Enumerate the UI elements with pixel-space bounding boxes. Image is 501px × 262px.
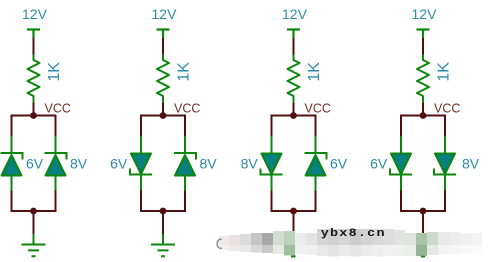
pin wire bottom of left diode [400,175,402,192]
svg-text:6V: 6V [330,156,348,172]
junction bottom node (circuit 1) [30,208,37,215]
resistor R1 [28,55,40,103]
svg-text:1K: 1K [306,62,323,82]
wire VCC node to right branch [294,116,316,137]
svg-text:8V: 8V [462,156,480,172]
blurred watermark logo curl [217,239,222,248]
pin wire top of right diode [315,136,317,153]
pin wire bottom of left diode [271,175,273,192]
svg-text:12V: 12V [282,6,308,22]
wire resistor R4 to node VCC [422,103,424,115]
wire left branch to bottom node [12,191,34,212]
wire right branch to bottom node [423,191,445,212]
power terminal +12V (circuit 3) [287,30,300,39]
svg-text:8V: 8V [200,156,218,172]
zener diode D2 (8V) anode triangle [46,155,66,176]
wire resistor R3 to node VCC [293,103,295,115]
zener diode D1 (6V) cathode bar [1,153,23,160]
zener diode D6 (6V) cathode bar [305,153,327,160]
pin wire bottom of right diode [444,175,446,192]
pin wire top of left diode [271,136,273,155]
wire VCC node to left branch [141,116,163,137]
junction node VCC (circuit 1) [30,112,37,119]
wire VCC node to left branch [272,116,294,137]
power terminal +12V (circuit 1) [27,30,40,39]
ground symbol (circuit 3, mostly hidden by watermark) [282,234,306,256]
zener diode D4 (8V) cathode bar [174,153,196,160]
svg-text:VCC: VCC [305,102,331,116]
wire left branch to bottom node [401,191,423,212]
svg-text:8V: 8V [70,156,88,172]
junction node VCC (circuit 3) [290,112,297,119]
zener diode D6 (6V) anode triangle [306,155,326,176]
pin wire top of left diode [11,136,13,153]
wire bottom node to ground [422,211,424,234]
svg-text:ybx8.cn: ybx8.cn [321,227,386,240]
zener diode D1 (6V) anode triangle [2,155,22,176]
wire VCC node to right branch [163,116,185,137]
wire left branch to bottom node [272,191,294,212]
pin wire top of right diode [184,136,186,153]
pin wire top of right diode [55,136,57,153]
resistor R4 [417,55,429,103]
wire VCC node to left branch [12,116,34,137]
junction bottom node (circuit 2) [160,208,167,215]
pin wire bottom of left diode [11,176,13,192]
wire 12V terminal to resistor R1 [33,38,35,55]
zener diode D7 (6V) cathode bar [390,169,412,175]
watermark blur mosaic band [218,229,482,257]
svg-text:VCC: VCC [174,102,200,116]
pin wire top of left diode [400,136,402,155]
wire 12V terminal to resistor R2 [162,38,164,55]
pin wire bottom of right diode [55,176,57,192]
zener diode D8 (8V) anode triangle [435,154,455,175]
wire resistor R2 to node VCC [162,103,164,115]
wire bottom node to ground [293,211,295,234]
wire VCC node to right branch [34,116,56,137]
zener diode D5 (8V) cathode bar [261,169,283,175]
zener diode D5 (8V) anode triangle [262,154,282,175]
junction bottom node (circuit 3) [290,208,297,215]
svg-text:6V: 6V [26,156,44,172]
ground symbol (circuit 1) [22,234,46,256]
wire right branch to bottom node [163,191,185,212]
wire 12V terminal to resistor R4 [422,38,424,55]
power terminal +12V (circuit 2) [157,30,170,39]
wire bottom node to ground [162,211,164,234]
ground symbol (circuit 2) [151,234,175,256]
pin wire bottom of right diode [184,176,186,192]
pin wire bottom of left diode [140,175,142,192]
svg-text:12V: 12V [152,6,178,22]
svg-text:6V: 6V [110,156,128,172]
wire right branch to bottom node [294,191,316,212]
svg-text:6V: 6V [370,156,388,172]
wire resistor R1 to node VCC [33,103,35,115]
junction node VCC (circuit 4) [420,112,427,119]
pin wire top of left diode [140,136,142,155]
resistor R3 [288,55,300,103]
resistor R2 [157,55,169,103]
zener diode D7 (6V) anode triangle [391,154,411,175]
wire 12V terminal to resistor R3 [293,38,295,55]
svg-text:12V: 12V [22,6,48,22]
junction node VCC (circuit 2) [160,112,167,119]
zener diode D4 (8V) anode triangle [175,155,195,176]
pin wire top of right diode [444,136,446,155]
ground dash peeking below watermark (circuit 3) [291,256,295,258]
svg-text:8V: 8V [241,156,259,172]
wire bottom node to ground [33,211,35,234]
svg-text:1K: 1K [175,62,192,82]
zener diode D3 (6V) cathode bar [130,169,152,175]
wire VCC node to right branch [423,116,445,137]
svg-text:VCC: VCC [434,102,460,116]
power terminal +12V (circuit 4) [417,30,430,39]
junction bottom node (circuit 4) [420,208,427,215]
svg-text:1K: 1K [46,62,63,82]
wire left branch to bottom node [141,191,163,212]
svg-text:1K: 1K [435,62,452,82]
pin wire bottom of right diode [315,176,317,192]
ground symbol (circuit 4, mostly hidden by watermark) [411,234,435,256]
svg-text:VCC: VCC [45,102,71,116]
zener diode D8 (8V) cathode bar [434,169,456,175]
wire VCC node to left branch [401,116,423,137]
zener diode D3 (6V) anode triangle [131,154,151,175]
wire right branch to bottom node [34,191,56,212]
zener diode D2 (8V) cathode bar [45,153,67,160]
svg-text:12V: 12V [412,6,438,22]
ground dash peeking below watermark (circuit 4) [422,256,425,258]
